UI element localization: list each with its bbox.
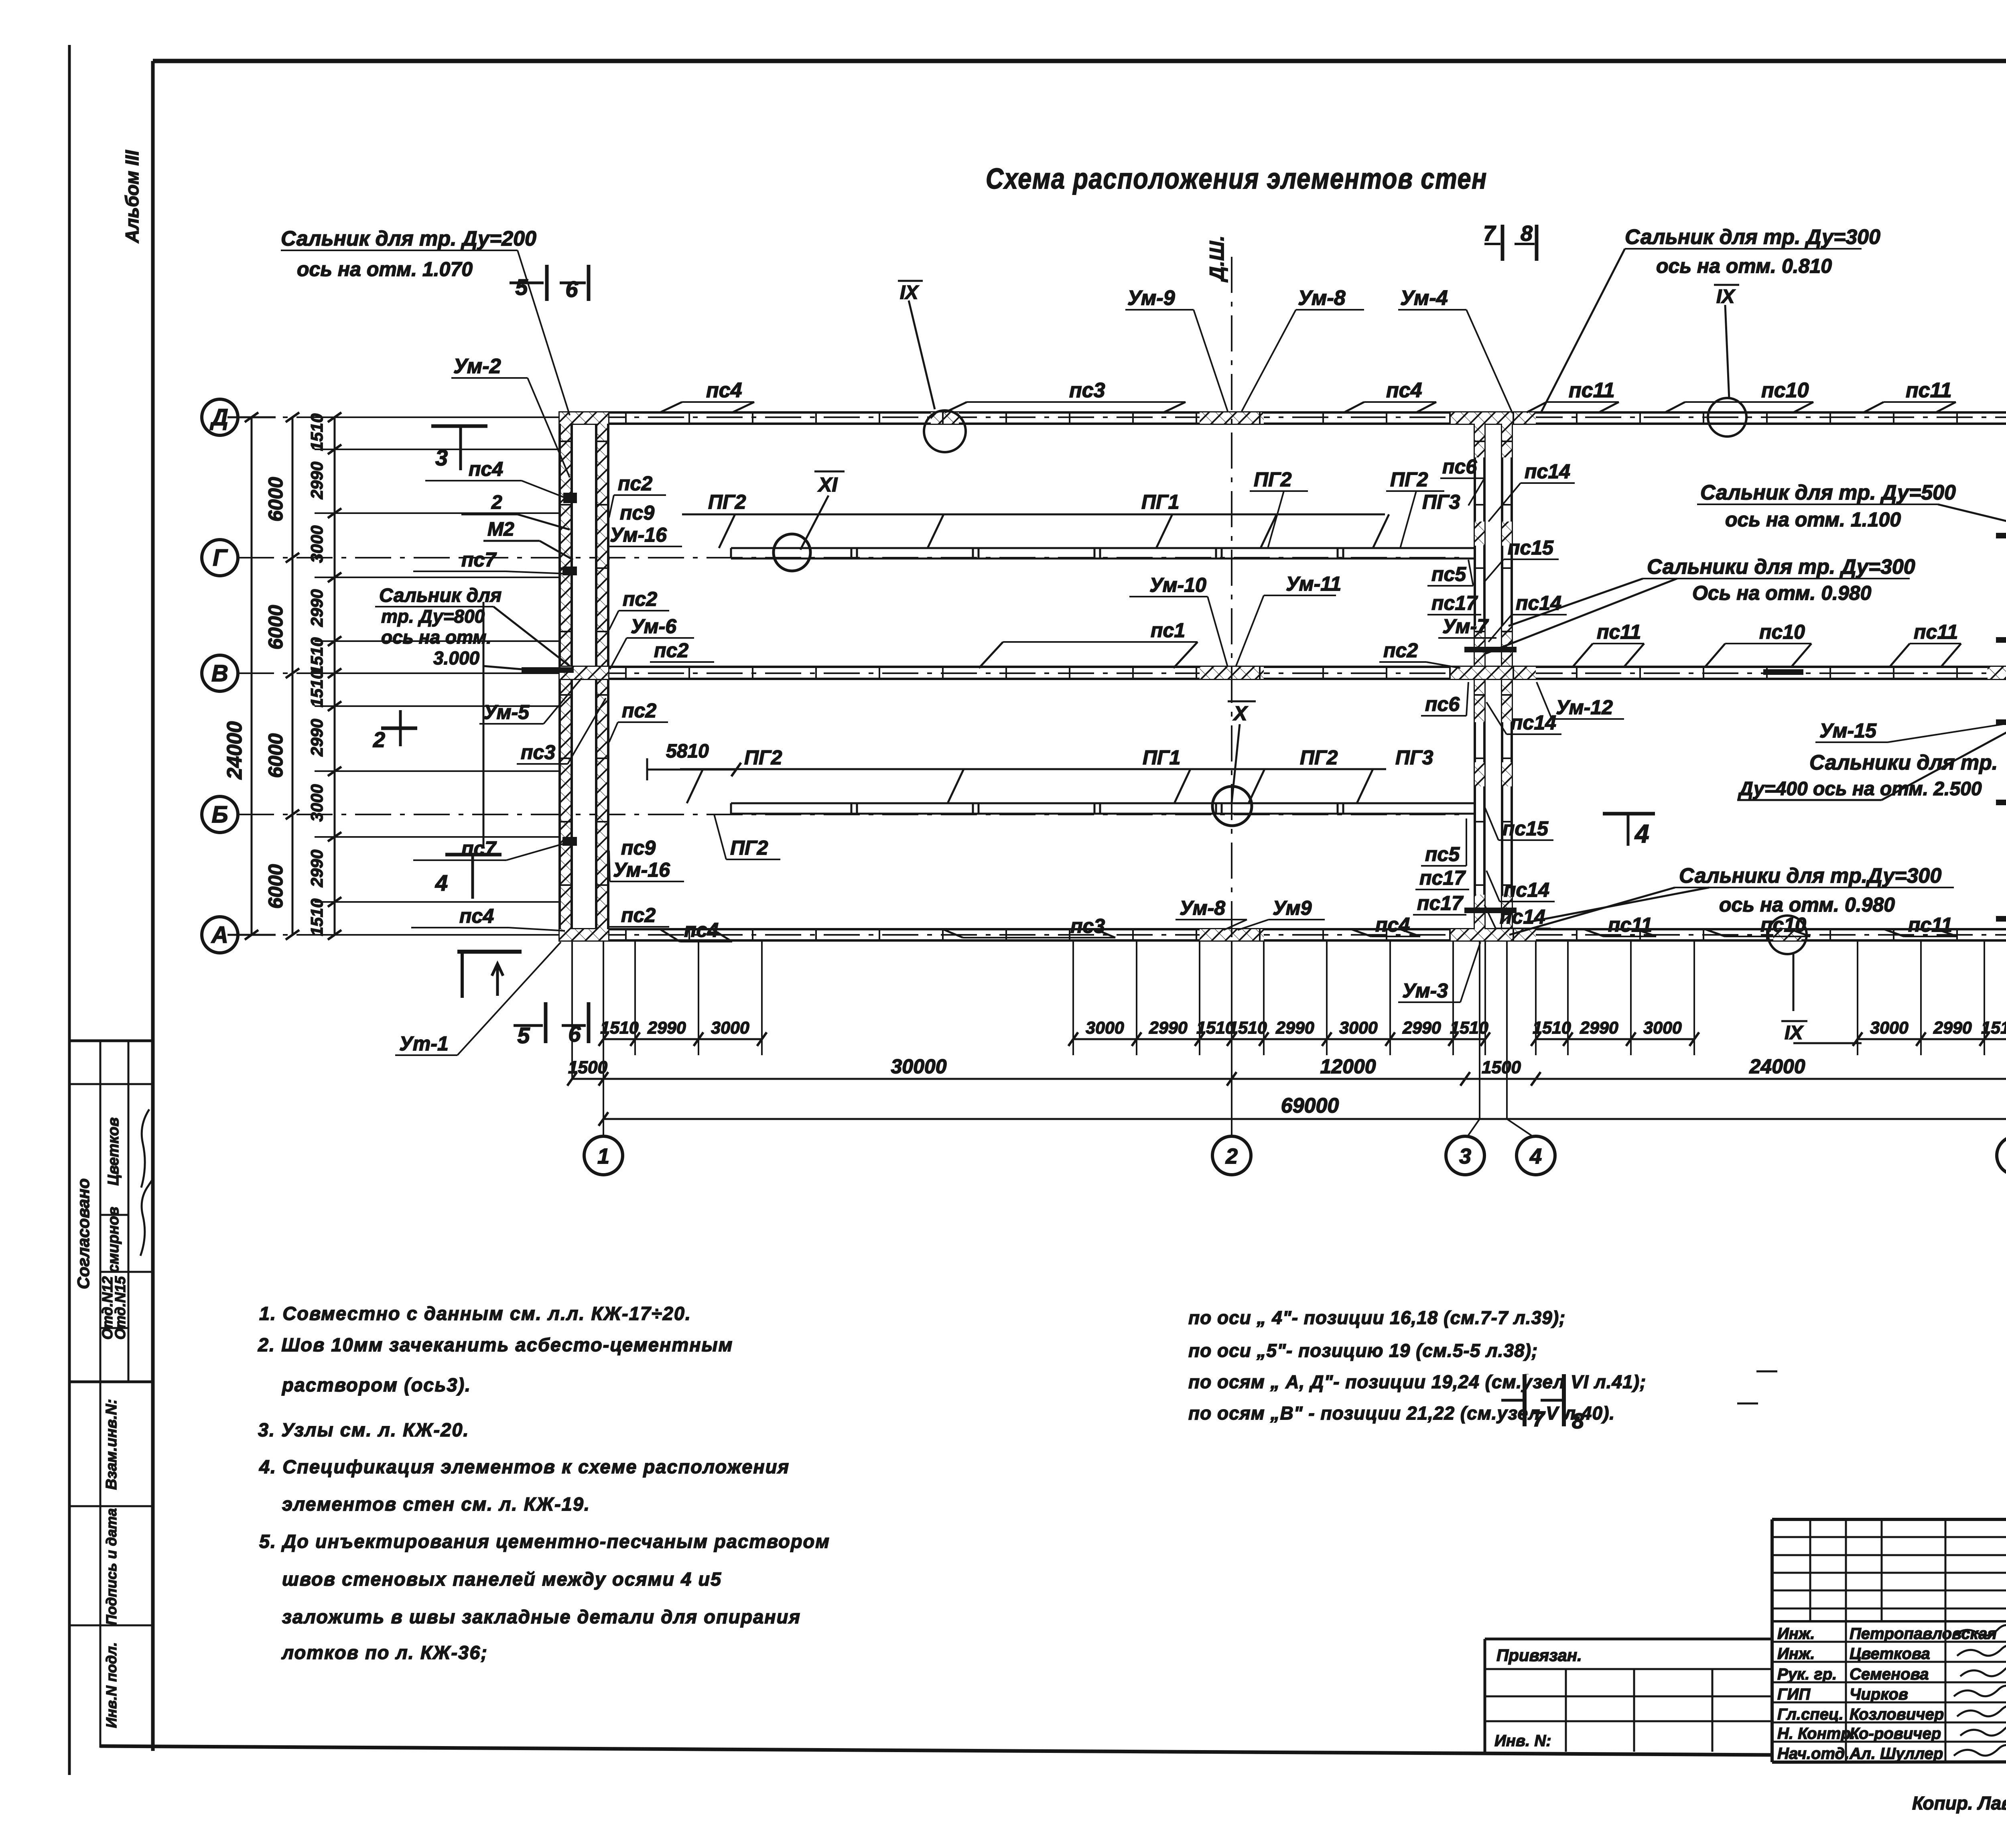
svg-text:Цветкова: Цветкова xyxy=(1850,1645,1930,1663)
column bubble 5 xyxy=(1997,1136,2006,1175)
svg-text:Нач.отд.: Нач.отд. xyxy=(1777,1745,1849,1763)
drawing frame left border xyxy=(151,61,155,1751)
revision table rows xyxy=(1772,1536,2006,1538)
svg-text:1510: 1510 xyxy=(1228,1018,1267,1038)
svg-text:3000: 3000 xyxy=(307,784,326,822)
svg-text:пс2: пс2 xyxy=(622,699,656,722)
svg-text:2: 2 xyxy=(491,492,502,513)
joint circle on bottom wall right section xyxy=(1768,916,1807,954)
svg-text:3000: 3000 xyxy=(1086,1018,1124,1038)
svg-text:пс14: пс14 xyxy=(1525,460,1570,483)
svg-text:1: 1 xyxy=(597,1144,609,1168)
svg-text:пс11: пс11 xyxy=(1906,379,1952,402)
svg-text:ПГ2: ПГ2 xyxy=(730,837,768,859)
svg-text:4: 4 xyxy=(1529,1144,1542,1168)
svg-text:1500: 1500 xyxy=(1482,1058,1521,1077)
left panel dimension line (1510/2990/3000) xyxy=(334,417,336,935)
svg-text:1510: 1510 xyxy=(1981,1018,2006,1038)
wall on axis 3 xyxy=(1475,412,1484,940)
section mark 8 bottom xyxy=(1562,1374,1566,1426)
svg-text:Ум-2: Ум-2 xyxy=(453,355,501,378)
svg-text:пс2: пс2 xyxy=(623,588,657,610)
revision table columns xyxy=(1809,1519,1811,1621)
svg-text:А: А xyxy=(211,922,228,948)
svg-text:пс2: пс2 xyxy=(621,904,656,926)
svg-text:69000: 69000 xyxy=(1281,1094,1339,1117)
svg-text:лотков по л. КЖ-36;: лотков по л. КЖ-36; xyxy=(281,1642,488,1663)
svg-text:5810: 5810 xyxy=(666,741,709,762)
svg-text:пс4: пс4 xyxy=(469,458,503,480)
svg-text:5: 5 xyxy=(517,1023,530,1048)
panel joint ticks middle wall В xyxy=(625,667,627,679)
svg-text:1510: 1510 xyxy=(1533,1018,1571,1038)
grid axis bubble Г xyxy=(202,540,238,576)
svg-text:XI: XI xyxy=(817,473,838,496)
svg-text:Альбом III: Альбом III xyxy=(122,150,142,243)
svg-text:пс5: пс5 xyxy=(1431,563,1466,585)
svg-text:Ум-4: Ум-4 xyxy=(1400,286,1448,310)
seal mark on left wall xyxy=(563,493,577,503)
svg-text:Сальник для тр. Ду=500: Сальник для тр. Ду=500 xyxy=(1700,481,1956,504)
svg-text:Сальники для тр. Ду=300: Сальники для тр. Ду=300 xyxy=(1647,555,1915,579)
svg-text:пс1: пс1 xyxy=(1151,619,1185,642)
svg-text:пс10: пс10 xyxy=(1761,379,1809,402)
svg-text:пс4: пс4 xyxy=(459,905,494,927)
svg-text:2990: 2990 xyxy=(307,589,326,627)
svg-text:ПГ2: ПГ2 xyxy=(1300,746,1338,769)
svg-text:Ум-15: Ум-15 xyxy=(1819,719,1877,742)
bottom extension lines xyxy=(571,940,573,1079)
svg-text:2990: 2990 xyxy=(647,1018,686,1038)
svg-text:ПГ3: ПГ3 xyxy=(1422,491,1460,513)
svg-text:по оси „ 4"- позиции 16,18 (с: по оси „ 4"- позиции 16,18 (см.7-7 л.39)… xyxy=(1188,1307,1565,1328)
leader bracket left of wall xyxy=(483,602,485,849)
svg-text:пс14: пс14 xyxy=(1504,879,1549,901)
svg-text:1510: 1510 xyxy=(307,670,326,707)
svg-text:6000: 6000 xyxy=(264,605,287,650)
bottom dimension row 30000/12000/24000 xyxy=(572,1078,2006,1080)
seal mark on axis3/4 walls bottom xyxy=(1464,908,1517,913)
svg-text:Привязан.: Привязан. xyxy=(1496,1646,1582,1665)
left dimension extension lines xyxy=(315,416,560,418)
svg-text:Сальники для тр.Ду=300: Сальники для тр.Ду=300 xyxy=(1679,864,1941,887)
seal mark on right wall y1335 xyxy=(1996,533,2006,538)
grid axis bubble Д xyxy=(202,399,238,435)
joint circle on partition Г xyxy=(774,534,810,571)
tank left inner wall xyxy=(596,412,608,940)
svg-text:4: 4 xyxy=(1634,819,1649,848)
svg-text:6: 6 xyxy=(568,1021,581,1046)
section mark 7 bottom xyxy=(1523,1374,1527,1426)
svg-text:Ум-3: Ум-3 xyxy=(1402,979,1448,1002)
section mark 8 top xyxy=(1535,225,1539,261)
svg-text:Чирков: Чирков xyxy=(1850,1686,1908,1703)
svg-text:2990: 2990 xyxy=(1402,1018,1441,1038)
svg-text:Сальник для тр. Ду=300: Сальник для тр. Ду=300 xyxy=(1625,225,1880,249)
axis 2 center line (Д.Ш.) xyxy=(1231,257,1232,940)
svg-text:Инв.N подл.: Инв.N подл. xyxy=(103,1642,120,1728)
svg-text:пс4: пс4 xyxy=(1375,914,1410,936)
svg-text:пс11: пс11 xyxy=(1914,621,1958,643)
svg-text:ПГ1: ПГ1 xyxy=(1143,746,1180,769)
svg-text:пс2: пс2 xyxy=(618,472,652,495)
wall on axis 4 xyxy=(1502,412,1512,940)
svg-text:Д.Ш.: Д.Ш. xyxy=(1206,236,1228,282)
svg-text:Ум-16: Ум-16 xyxy=(613,859,670,881)
sheet outer left edge line xyxy=(68,45,71,1775)
svg-text:Цветков: Цветков xyxy=(105,1117,122,1186)
svg-text:ось на отм. 0.980: ось на отм. 0.980 xyxy=(1719,894,1895,916)
partition on row Г (band) xyxy=(731,547,1475,549)
hatch spots on axis 3/4 walls xyxy=(1475,412,1484,457)
svg-text:В: В xyxy=(211,660,228,686)
column bubble 4 xyxy=(1517,1136,1555,1175)
signature rows xyxy=(1772,1641,2006,1643)
svg-text:2990: 2990 xyxy=(1275,1018,1314,1038)
svg-text:1. Совместно с данным см.: 1. Совместно с данным см. л.л. КЖ-17÷20. xyxy=(259,1303,691,1324)
svg-text:смирнов: смирнов xyxy=(105,1207,122,1273)
svg-text:Гл.спец.: Гл.спец. xyxy=(1777,1706,1844,1723)
svg-text:Инж.: Инж. xyxy=(1777,1625,1815,1643)
svg-text:Сальники для тр.: Сальники для тр. xyxy=(1809,751,1998,774)
svg-text:Ум-5: Ум-5 xyxy=(483,701,530,723)
svg-text:Подпись и дата: Подпись и дата xyxy=(103,1508,120,1625)
seal mark on right wall y1595 xyxy=(1996,637,2006,643)
seal mark on left wall row Б area xyxy=(562,837,577,846)
bottom overall dimension row 69000 xyxy=(603,1118,2006,1120)
svg-text:5: 5 xyxy=(515,274,528,300)
svg-text:пс11: пс11 xyxy=(1569,379,1615,402)
svg-text:пс17: пс17 xyxy=(1417,892,1464,914)
svg-text:4: 4 xyxy=(435,870,448,896)
svg-text:4. Спецификация элементов: 4. Спецификация элементов к схеме распол… xyxy=(259,1456,790,1477)
title block outline xyxy=(1772,1518,2006,1521)
svg-text:пс14: пс14 xyxy=(1516,592,1561,614)
left bay dimension line 6000 x4 xyxy=(292,417,294,935)
svg-text:пс3: пс3 xyxy=(1069,379,1105,402)
hatch spots at wall junctions xyxy=(1200,412,1264,424)
svg-text:ПГ1: ПГ1 xyxy=(1141,491,1179,513)
svg-text:Ду=400 ось на отм. 2.500: Ду=400 ось на отм. 2.500 xyxy=(1738,778,1982,800)
svg-text:ГИП: ГИП xyxy=(1777,1686,1811,1703)
svg-text:пс15: пс15 xyxy=(1508,536,1554,559)
svg-text:пс7: пс7 xyxy=(461,548,497,571)
svg-text:5. До инъектирования цемен: 5. До инъектирования цементно-песчаным р… xyxy=(259,1531,830,1552)
column bubble 2 xyxy=(1212,1136,1251,1175)
svg-text:8: 8 xyxy=(1521,221,1533,246)
svg-text:ось на отм. 1.100: ось на отм. 1.100 xyxy=(1725,508,1901,531)
grid axis bubble Б xyxy=(202,796,238,833)
svg-text:Семенова: Семенова xyxy=(1850,1665,1929,1683)
svg-text:ПГ2: ПГ2 xyxy=(1390,468,1428,491)
column bubble 1 xyxy=(584,1136,623,1175)
section mark 5 bottom xyxy=(544,1002,548,1043)
section mark 3 left xyxy=(431,424,487,428)
svg-text:по оси „5"- позицию 19 (см.5: по оси „5"- позицию 19 (см.5-5 л.38); xyxy=(1188,1340,1538,1361)
left overall dimension line 24000 xyxy=(251,417,253,935)
svg-text:3. Узлы см. л. КЖ-20.: 3. Узлы см. л. КЖ-20. xyxy=(258,1419,469,1440)
svg-text:1510: 1510 xyxy=(600,1018,639,1038)
svg-text:пс6: пс6 xyxy=(1442,455,1477,478)
svg-text:2990: 2990 xyxy=(307,462,326,500)
grid axis В dash-dot line xyxy=(238,672,2006,674)
joint circle on partition Б (axis 2) xyxy=(1212,786,1252,826)
svg-text:6000: 6000 xyxy=(264,864,287,909)
section mark 2 left xyxy=(381,727,417,730)
svg-text:пс9: пс9 xyxy=(621,837,656,859)
svg-text:Ум-6: Ум-6 xyxy=(631,615,677,638)
svg-text:IX: IX xyxy=(900,282,919,303)
grid axis А dash-dot line xyxy=(238,934,2006,936)
sidebar table Согласовано xyxy=(69,1040,153,1042)
sidebar signature squiggle 1 xyxy=(141,1109,149,1188)
svg-text:6000: 6000 xyxy=(264,477,287,522)
svg-text:Б: Б xyxy=(211,802,228,828)
svg-text:30000: 30000 xyxy=(891,1055,946,1078)
grid axis bubble В xyxy=(202,655,238,691)
svg-text:пс3: пс3 xyxy=(1070,915,1105,937)
svg-text:ось на отм.: ось на отм. xyxy=(381,627,491,648)
seal mark on left wall row В xyxy=(522,667,574,673)
svg-text:Ось на отм. 0.980: Ось на отм. 0.980 xyxy=(1692,582,1872,604)
svg-text:2990: 2990 xyxy=(1933,1018,1972,1038)
svg-text:Инв. N:: Инв. N: xyxy=(1494,1732,1551,1750)
svg-text:Ум-8: Ум-8 xyxy=(1180,897,1225,919)
partition on row Б (band) xyxy=(731,802,1475,804)
svg-text:Ум-11: Ум-11 xyxy=(1286,573,1341,595)
svg-text:пс4: пс4 xyxy=(706,379,742,402)
seal mark on right wall y2290 xyxy=(1996,916,2006,922)
svg-text:Рук. гр.: Рук. гр. xyxy=(1777,1665,1837,1683)
svg-text:3000: 3000 xyxy=(307,526,326,563)
svg-text:IX: IX xyxy=(1785,1022,1804,1044)
svg-text:Инж.: Инж. xyxy=(1777,1645,1815,1663)
svg-text:Петропавловская: Петропавловская xyxy=(1850,1625,1997,1643)
svg-text:пс9: пс9 xyxy=(620,502,654,524)
svg-text:24000: 24000 xyxy=(223,721,246,780)
svg-text:3000: 3000 xyxy=(1339,1018,1378,1038)
grid axis Б dash-dot line xyxy=(238,814,1466,815)
svg-text:Ум-8: Ум-8 xyxy=(1298,286,1346,310)
svg-text:ось на отм. 1.070: ось на отм. 1.070 xyxy=(297,258,473,280)
svg-text:Ум-7: Ум-7 xyxy=(1442,615,1489,638)
panel joint ticks bottom wall xyxy=(625,929,627,940)
section mark 5 top xyxy=(545,265,549,301)
svg-text:пс3: пс3 xyxy=(521,741,555,764)
svg-text:пс11: пс11 xyxy=(1597,621,1641,643)
svg-text:пс6: пс6 xyxy=(1425,693,1460,715)
svg-text:Взам.инв.N:: Взам.инв.N: xyxy=(103,1399,120,1490)
drawing frame top border xyxy=(153,59,2006,63)
svg-text:пс5: пс5 xyxy=(1425,843,1460,865)
panel joint ticks on vertical walls xyxy=(560,441,572,442)
svg-text:1510: 1510 xyxy=(307,638,326,675)
svg-text:1500: 1500 xyxy=(568,1058,607,1077)
svg-text:пс2: пс2 xyxy=(1383,639,1418,662)
svg-text:пс7: пс7 xyxy=(461,837,497,860)
svg-text:6: 6 xyxy=(565,276,578,302)
panel joint ticks top wall xyxy=(625,412,627,424)
joint circle on top wall right section xyxy=(1708,398,1746,437)
svg-text:Копир. Лаврухина: Копир. Лаврухина xyxy=(1912,1793,2006,1813)
svg-text:Отд.N15: Отд.N15 xyxy=(112,1276,128,1340)
svg-text:Ум-16: Ум-16 xyxy=(610,524,667,546)
tank bottom wall (row А) xyxy=(560,929,2006,940)
sidebar cell Взам. инв. N xyxy=(69,1505,153,1507)
svg-text:ПГ3: ПГ3 xyxy=(1395,746,1433,769)
svg-text:по осям „ А, Д"- позиции 19,: по осям „ А, Д"- позиции 19,24 (см.узел … xyxy=(1188,1371,1646,1392)
grid axis bubble А xyxy=(202,917,238,953)
svg-text:2: 2 xyxy=(373,728,385,752)
svg-text:6000: 6000 xyxy=(264,733,287,778)
svg-text:X: X xyxy=(1232,702,1248,725)
svg-text:Согласовано: Согласовано xyxy=(74,1178,93,1289)
svg-text:ПГ2: ПГ2 xyxy=(1254,468,1292,491)
svg-text:3: 3 xyxy=(1459,1144,1471,1168)
sheet bottom border line xyxy=(100,1746,1772,1755)
grid axis Г dash-dot line xyxy=(238,557,1466,558)
svg-text:М2: М2 xyxy=(487,519,514,540)
grid axis Д dash-dot line xyxy=(238,416,2006,418)
svg-text:2990: 2990 xyxy=(1149,1018,1188,1038)
svg-text:пс17: пс17 xyxy=(1431,592,1478,614)
svg-text:раствором (ось3).: раствором (ось3). xyxy=(281,1374,471,1395)
section mark Т4 xyxy=(1603,812,1655,816)
column bubble 3 xyxy=(1446,1136,1484,1175)
svg-text:Ум9: Ум9 xyxy=(1273,897,1312,919)
svg-text:Сальник для тр. Ду=200: Сальник для тр. Ду=200 xyxy=(281,227,536,250)
small table Привязан xyxy=(1485,1638,1772,1641)
svg-text:24000: 24000 xyxy=(1749,1055,1805,1078)
seal mark on right wall y2000 xyxy=(1996,800,2006,805)
signatures xyxy=(1954,1625,2006,1636)
svg-text:7: 7 xyxy=(1483,221,1496,246)
sidebar cell Подпись и дата xyxy=(69,1625,153,1627)
svg-text:Г: Г xyxy=(213,545,228,571)
svg-text:3.000: 3.000 xyxy=(433,648,480,668)
svg-text:3000: 3000 xyxy=(711,1018,749,1038)
svg-text:элементов стен см. л. КЖ-1: элементов стен см. л. КЖ-19. xyxy=(282,1493,590,1515)
svg-text:1510: 1510 xyxy=(307,414,326,451)
svg-text:2990: 2990 xyxy=(307,719,326,757)
svg-text:пс2: пс2 xyxy=(654,639,688,662)
svg-text:швов стеновых панелей: швов стеновых панелей между осями 4 и5 xyxy=(282,1568,722,1590)
svg-text:Схема расположения элементов: Схема расположения элементов стен xyxy=(986,163,1487,195)
section mark 7 top xyxy=(1501,225,1504,261)
signature columns xyxy=(1845,1621,1847,1762)
svg-text:12000: 12000 xyxy=(1320,1055,1376,1078)
tank top wall (row Д) xyxy=(560,412,2006,424)
svg-text:2. Шов 10мм зачеканить: 2. Шов 10мм зачеканить асбесто-цементным xyxy=(258,1334,733,1355)
seal mark on left wall row Г area xyxy=(562,567,577,575)
svg-text:Д: Д xyxy=(209,404,228,431)
label line row Б xyxy=(680,768,1386,770)
label line row Г xyxy=(682,514,1385,516)
svg-text:Козловичер: Козловичер xyxy=(1850,1706,1944,1723)
svg-text:Ум-10: Ум-10 xyxy=(1149,574,1206,596)
svg-text:пс4: пс4 xyxy=(1386,379,1422,402)
svg-text:Ум-9: Ум-9 xyxy=(1127,286,1175,310)
section mark 1 below А xyxy=(457,950,522,954)
svg-text:2990: 2990 xyxy=(307,850,326,887)
svg-text:по осям „В" - позиции 21,2: по осям „В" - позиции 21,22 (см.узел V л… xyxy=(1188,1403,1615,1424)
svg-text:Ал. Шуллер: Ал. Шуллер xyxy=(1849,1745,1943,1763)
svg-text:пс15: пс15 xyxy=(1502,817,1549,840)
svg-text:заложить в швы закладные: заложить в швы закладные детали для опир… xyxy=(282,1606,801,1627)
svg-text:1510: 1510 xyxy=(307,899,326,936)
svg-text:Ут-1: Ут-1 xyxy=(399,1032,449,1055)
svg-text:2990: 2990 xyxy=(1580,1018,1618,1038)
seal marks middle-right wall В xyxy=(1763,669,1803,675)
section mark 6 bottom xyxy=(587,1002,591,1043)
svg-text:3000: 3000 xyxy=(1870,1018,1909,1038)
svg-text:ПГ2: ПГ2 xyxy=(708,491,746,513)
section mark 4 left xyxy=(445,853,501,857)
svg-text:тр. Ду=800: тр. Ду=800 xyxy=(381,606,485,627)
bottom small dimension row xyxy=(603,1038,762,1040)
svg-text:1510: 1510 xyxy=(1450,1018,1488,1038)
svg-text:ПГ2: ПГ2 xyxy=(744,746,782,769)
svg-text:2: 2 xyxy=(1225,1144,1238,1168)
seal mark on right wall y1800 xyxy=(1996,719,2006,725)
svg-text:IX: IX xyxy=(1716,286,1736,307)
svg-text:Ко-ровичер: Ко-ровичер xyxy=(1850,1725,1941,1742)
svg-text:ось на отм. 0.810: ось на отм. 0.810 xyxy=(1656,255,1832,277)
svg-text:3: 3 xyxy=(435,445,448,470)
svg-text:3000: 3000 xyxy=(1643,1018,1682,1038)
section mark 6 top xyxy=(587,265,591,301)
svg-text:пс17: пс17 xyxy=(1419,867,1466,889)
svg-text:пс10: пс10 xyxy=(1759,621,1805,643)
joint circle on top wall left section xyxy=(924,410,966,452)
middle wall on row В xyxy=(560,667,2006,679)
svg-text:Ум-12: Ум-12 xyxy=(1556,696,1613,719)
svg-text:Н. Контр.: Н. Контр. xyxy=(1777,1725,1855,1742)
tank left outer wall xyxy=(560,412,572,940)
